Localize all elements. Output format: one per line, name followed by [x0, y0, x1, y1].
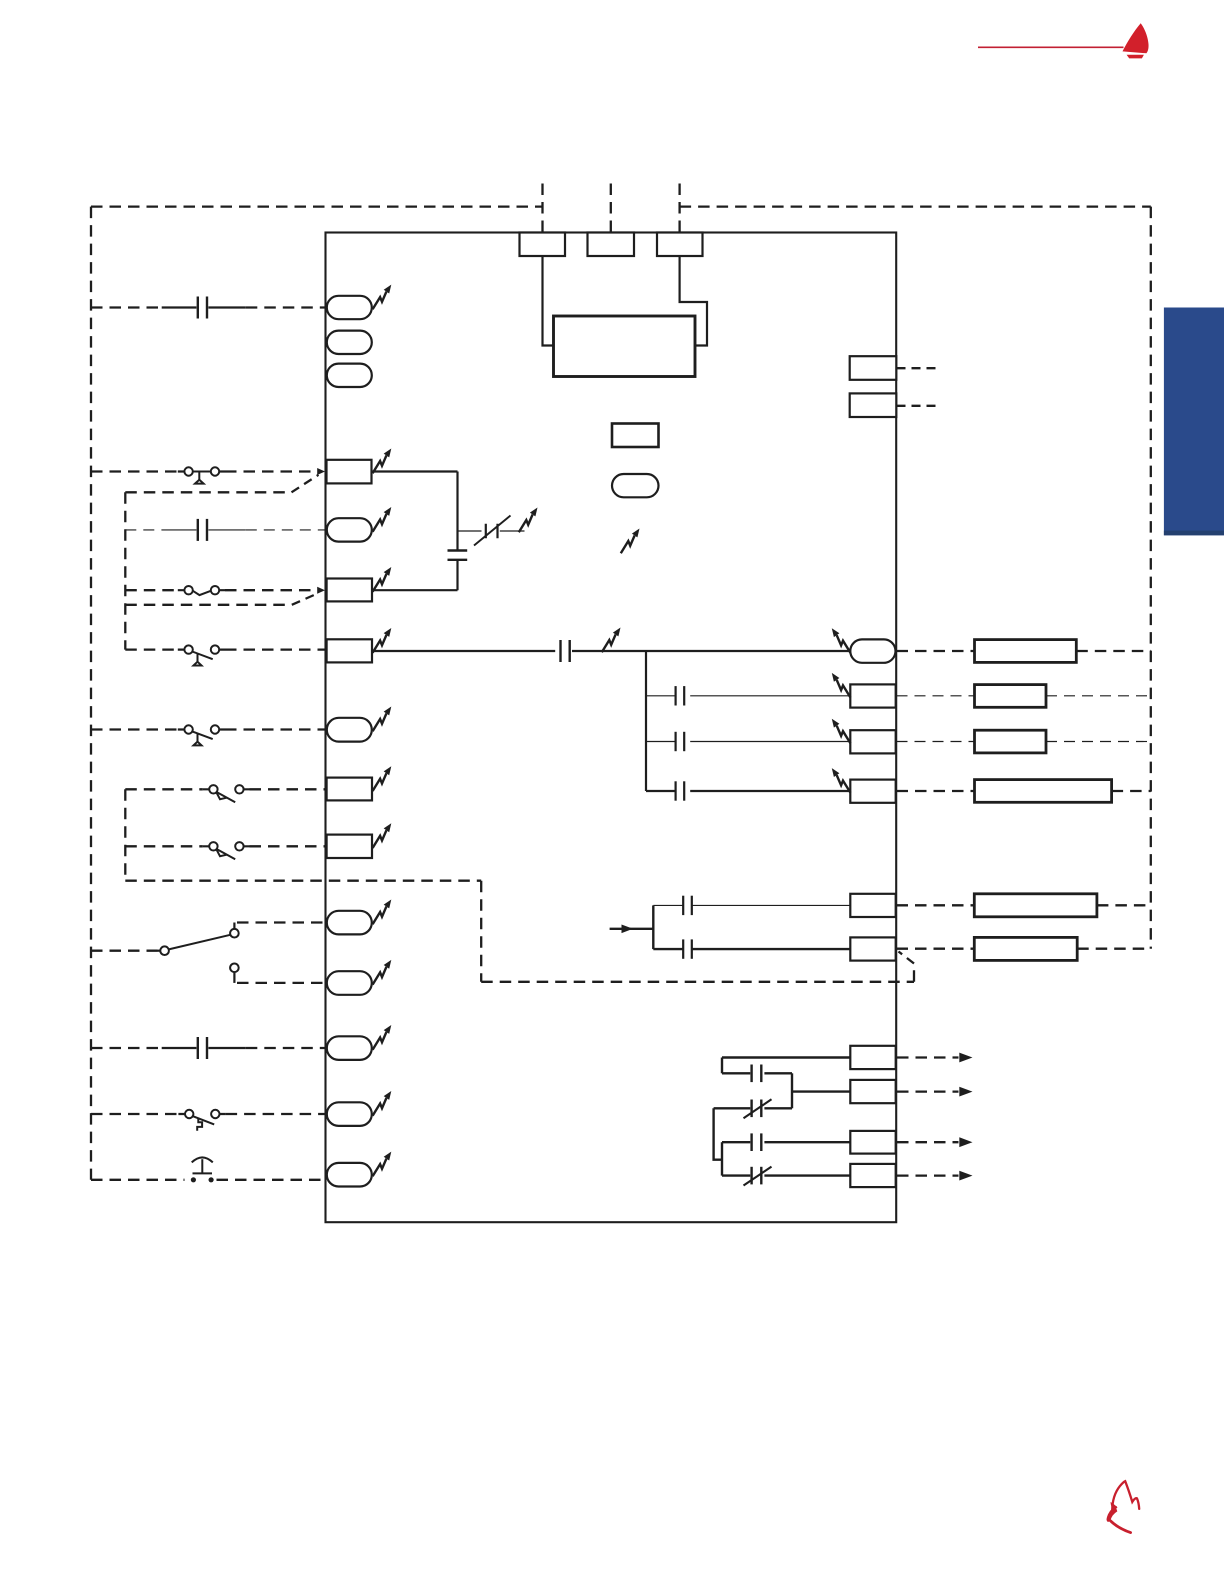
wire R6 to node N1 — [372, 589, 458, 591]
pin R2 — [850, 684, 895, 707]
pin R3 — [850, 730, 895, 753]
pin P3 — [850, 1131, 895, 1154]
right pin RB — [850, 393, 897, 417]
wire branch node N2 — [645, 651, 647, 791]
input arrow wire — [610, 928, 654, 930]
left inner rail B — [124, 789, 126, 880]
footer sailboat sketch — [1108, 1481, 1139, 1532]
top dashed bus left — [91, 205, 543, 207]
wire R4 to node N1 — [372, 470, 458, 472]
chip outline U1 — [326, 233, 897, 1223]
net R1 row — [897, 650, 975, 652]
pin P4 — [850, 1164, 895, 1187]
output arrow P2 — [897, 1090, 959, 1092]
net row3 to R6 with switch SW2 — [125, 589, 178, 591]
pin R6 — [327, 579, 372, 602]
capacitor C6 — [683, 896, 692, 915]
output arrow P3 — [897, 1141, 959, 1143]
RF arrow at CV1 — [519, 508, 538, 533]
net S5 with capacitor CX2 — [125, 529, 161, 531]
pad R1 (stadium) — [850, 639, 895, 662]
wire N2 to R2 — [646, 695, 851, 697]
pin R9 — [327, 778, 372, 801]
capacitor C2 — [561, 640, 570, 662]
pad S13 — [327, 1036, 372, 1060]
pin R5 — [850, 894, 895, 917]
resistor Z1 — [975, 640, 1077, 663]
wire N2 to R3 — [646, 741, 851, 743]
header sailboat logo — [1123, 23, 1149, 58]
SPDT switch SW7 — [91, 950, 158, 952]
stub top pin2 — [610, 184, 612, 233]
left outer rail — [90, 207, 92, 1180]
pad S15 — [327, 1163, 372, 1187]
block B2 — [612, 424, 659, 448]
top pin 3 — [657, 233, 703, 257]
capacitor C5 — [676, 781, 685, 800]
net S1 with capacitor CX1 — [91, 306, 161, 308]
RF arrow near P0 — [621, 529, 640, 554]
capacitor C8 — [722, 1072, 792, 1074]
trimmer capacitor CV2 — [714, 1107, 792, 1109]
trimmer capacitor CV3 / wire P4 row — [722, 1174, 851, 1176]
pad S2 — [327, 331, 372, 354]
pin R7 — [327, 639, 372, 662]
pin R10 — [327, 835, 372, 858]
pad S3 — [327, 364, 372, 387]
wire N3 to R5 — [653, 904, 850, 906]
capacitor C4 — [676, 732, 685, 751]
net S13 with capacitor CX3 — [91, 1047, 161, 1049]
pad S1 — [327, 296, 372, 319]
pad S8 — [327, 718, 372, 742]
net R4r row — [897, 790, 975, 792]
pin P2 — [850, 1080, 895, 1103]
stub top pin1 — [541, 184, 543, 233]
stub top pin3 — [678, 184, 680, 233]
net row6 to R9 with switch SW5 — [125, 788, 203, 790]
block B1 — [554, 316, 696, 377]
top pin 2 — [588, 233, 635, 257]
wire R7 to R1 — [372, 650, 851, 652]
wire top pin1 to block — [543, 256, 554, 346]
wire node N4 — [721, 1058, 723, 1074]
resistor Z2 — [975, 685, 1047, 708]
wire P1 row — [722, 1056, 851, 1058]
wire top pin3 to block — [680, 256, 707, 346]
right pin RA — [850, 356, 897, 380]
net row4 to R7 with switch SW3 — [125, 648, 178, 650]
pad S12 — [327, 971, 372, 995]
pin R4 — [327, 460, 372, 484]
resistor Z5 — [974, 894, 1097, 917]
wire node N6 — [714, 1108, 722, 1159]
net row12 with pushbutton SW9 — [91, 1179, 185, 1181]
top pin 1 — [520, 233, 566, 257]
pad S11 — [327, 911, 372, 935]
resistor Z6 — [974, 937, 1077, 960]
resistor Z4 — [975, 780, 1112, 803]
net R3 row — [897, 741, 975, 743]
output arrow P1 — [897, 1056, 959, 1058]
capacitor C1 (series in N1) — [448, 551, 468, 560]
capacitor C3 — [676, 686, 685, 705]
stub RB — [897, 405, 937, 407]
trimmer capacitor CV1 — [486, 524, 498, 538]
pin P1 — [850, 1046, 895, 1069]
RF arrow on R7 line — [602, 628, 621, 653]
blue sidebar tab — [1164, 308, 1224, 536]
wire N2 to R4r — [646, 790, 851, 792]
net row3b jog — [125, 604, 290, 606]
wire branch node N3 — [652, 905, 654, 949]
wire P2 row — [792, 1090, 851, 1092]
net row1 to R4 with switch SW1 — [91, 470, 178, 472]
long feedback net — [125, 881, 914, 982]
net row11 to S14 with switch SW8 — [91, 1113, 178, 1115]
net R2 row — [897, 695, 975, 697]
right rail — [1150, 207, 1152, 949]
left inner rail A — [124, 492, 126, 649]
pin R6r — [850, 937, 895, 960]
pad P0 (center stadium) — [612, 474, 659, 497]
pad S5 — [327, 518, 372, 541]
net R6r row — [897, 948, 975, 950]
output arrow P4 — [897, 1174, 959, 1176]
net R5 row — [897, 904, 975, 906]
resistor Z3 — [975, 730, 1047, 753]
wire node N1 vertical — [456, 472, 458, 591]
net row5 to S8 with switch SW4 — [91, 728, 178, 730]
header red rule — [978, 46, 1124, 48]
stub RA — [897, 367, 937, 369]
wire node N5 — [791, 1073, 793, 1108]
wire N3 to R6r — [653, 948, 850, 950]
wire N1 branch — [458, 530, 525, 532]
wire node N7 — [721, 1142, 723, 1175]
net row1b jog — [125, 491, 290, 493]
top dashed bus right — [680, 205, 1151, 207]
capacitor C7 — [683, 939, 692, 958]
pin R4r — [850, 780, 895, 803]
pad S14 — [327, 1102, 372, 1126]
capacitor C9 / wire P3 row — [722, 1141, 851, 1143]
net row7 to R10 with switch SW6 — [125, 845, 203, 847]
